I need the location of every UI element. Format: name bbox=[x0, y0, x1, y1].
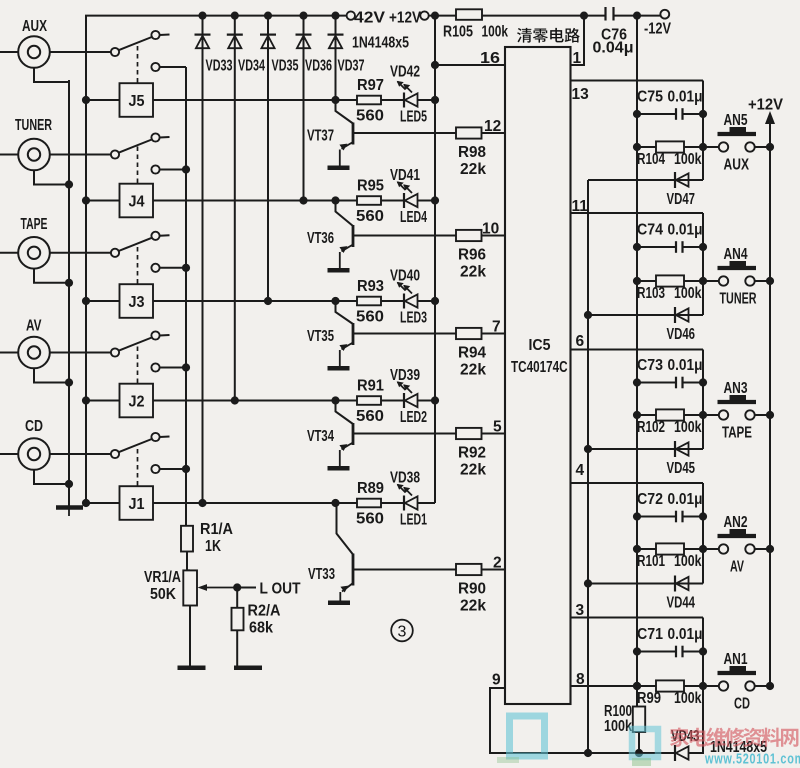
switch lower contact AV bbox=[151, 363, 159, 371]
junction VD3x column / stage 4 bbox=[299, 196, 307, 204]
button AN1 contact left bbox=[719, 681, 728, 690]
wire +12V button rail bbox=[769, 124, 771, 686]
svg-text:11: 11 bbox=[572, 198, 589, 215]
junction 42V rail / J2 bbox=[82, 396, 90, 404]
ground R2/A bbox=[234, 666, 262, 671]
wire C71 right bbox=[683, 651, 704, 653]
svg-text:TAPE: TAPE bbox=[722, 425, 752, 442]
junction collector node stage 3 bbox=[331, 297, 339, 305]
wire AUX jack left stub bbox=[0, 51, 18, 53]
button AN4 contact left bbox=[719, 276, 728, 285]
wire C73 right bbox=[683, 382, 704, 384]
diode VD34 bbox=[227, 35, 243, 49]
wire collector VT37 bbox=[336, 100, 354, 124]
svg-text:6: 6 bbox=[576, 333, 585, 350]
wire L OUT node to R2/A bbox=[236, 588, 238, 608]
svg-text:2: 2 bbox=[493, 555, 502, 572]
capacitor C73 bbox=[676, 377, 683, 389]
junction rail/R99 bbox=[633, 682, 641, 690]
terminal 42V bbox=[347, 11, 355, 19]
wire VD43 to R99 node bbox=[689, 686, 704, 753]
wire reset diode rail bbox=[587, 180, 589, 753]
svg-text:VT36: VT36 bbox=[307, 230, 334, 247]
wire IC pin 3 row bbox=[571, 617, 704, 619]
wire base VT36 to R96 bbox=[353, 235, 456, 237]
wire C75 right bbox=[683, 113, 704, 115]
resistor R100 bbox=[633, 707, 645, 733]
svg-text:VD44: VD44 bbox=[667, 595, 696, 612]
wire C71 left bbox=[637, 651, 676, 653]
junction +12V rail AN5 bbox=[766, 143, 774, 151]
svg-text:VT35: VT35 bbox=[307, 328, 334, 345]
resistor R90 bbox=[456, 564, 482, 575]
wire 42V rail to relay J2 bbox=[86, 400, 120, 402]
junction LED rail stage 2 bbox=[431, 396, 439, 404]
junction VD3x column / stage 2 bbox=[231, 396, 239, 404]
svg-text:C72: C72 bbox=[637, 491, 663, 508]
svg-text:R89: R89 bbox=[357, 480, 384, 497]
wire AN5 to +12V rail bbox=[754, 146, 770, 148]
junction right/C75 bbox=[699, 110, 707, 118]
switch lower contact TAPE bbox=[151, 264, 159, 272]
watermark green mark bbox=[497, 757, 651, 766]
wire 42V rail to relay J5 bbox=[86, 99, 120, 101]
watermark jiadian weixiu ziliao wang bbox=[670, 728, 799, 747]
svg-text:J5: J5 bbox=[129, 93, 145, 110]
wire channel 1 right rail bbox=[702, 618, 704, 687]
svg-text:AV: AV bbox=[26, 318, 42, 335]
junction 42V rail / J5 bbox=[82, 96, 90, 104]
dashed actuation link J2 bbox=[137, 347, 139, 384]
relay J2 bbox=[120, 384, 154, 418]
junction right/C74 bbox=[699, 243, 707, 251]
resistor R99 bbox=[656, 680, 684, 691]
wire C73 left bbox=[637, 382, 676, 384]
switch upper contact TUNER bbox=[151, 133, 159, 141]
wire IC pin 6 row bbox=[571, 349, 704, 351]
junction ground bus TUNER bbox=[65, 180, 73, 188]
junction right/C73 bbox=[699, 378, 707, 386]
svg-text:LED1: LED1 bbox=[400, 512, 427, 529]
svg-text:C71: C71 bbox=[637, 626, 663, 643]
svg-text:0.01μ: 0.01μ bbox=[668, 491, 703, 508]
resistor R93 bbox=[357, 297, 381, 306]
svg-text:J4: J4 bbox=[129, 193, 145, 210]
svg-text:13: 13 bbox=[572, 86, 590, 103]
wire AUX jack sleeve to ground bus bbox=[34, 68, 69, 82]
wire upper contact stub CD bbox=[160, 436, 170, 439]
svg-text:R103: R103 bbox=[637, 285, 665, 302]
svg-text:R105: R105 bbox=[443, 24, 473, 41]
wire VD37 column bbox=[335, 16, 337, 100]
junction +12V rail AN2 bbox=[766, 545, 774, 553]
terminal -12V bbox=[660, 10, 669, 19]
svg-text:R2/A: R2/A bbox=[248, 603, 281, 620]
wire base VT34 to R92 bbox=[353, 433, 456, 435]
switch common contact CD bbox=[111, 450, 119, 458]
ground VT36 bbox=[328, 268, 350, 273]
jack AUX connector bbox=[18, 36, 50, 68]
button AN5 contact left bbox=[719, 142, 728, 151]
wire channel 2 right rail bbox=[702, 483, 704, 584]
wire R90 to IC pin 2 bbox=[482, 569, 506, 571]
wire lower contact TAPE to audio bus bbox=[160, 267, 186, 269]
wire VD44 row bbox=[588, 583, 703, 585]
svg-text:TUNER: TUNER bbox=[15, 117, 52, 134]
wiper arrow VR1/A bbox=[198, 584, 238, 591]
wire 42V rail to relay J1 bbox=[86, 502, 120, 504]
wire R105 to C76 bbox=[482, 15, 606, 17]
wire C75 left bbox=[637, 113, 676, 115]
wire C74 left bbox=[637, 246, 676, 248]
jack AV connector bbox=[18, 337, 50, 369]
wire LED2 to LED rail bbox=[418, 400, 436, 402]
svg-text:R94: R94 bbox=[458, 345, 486, 362]
wire R96 to IC pin 10 bbox=[482, 235, 506, 237]
diode VD46 bbox=[675, 307, 689, 323]
svg-text:560: 560 bbox=[356, 408, 384, 425]
wire audio select bus bbox=[185, 67, 187, 526]
svg-text:VD36: VD36 bbox=[305, 58, 332, 75]
button AN5 contact right bbox=[745, 142, 754, 151]
wire top supply bus left segment with corner down left rail bbox=[86, 16, 347, 503]
svg-text:4: 4 bbox=[576, 462, 585, 479]
wire R102 right bbox=[684, 414, 719, 416]
wire R101 left bbox=[637, 548, 656, 550]
junction rail/C72 bbox=[633, 512, 641, 520]
junction rail/R102 bbox=[633, 411, 641, 419]
junction top bus / VD33 column bbox=[198, 12, 206, 20]
svg-text:22k: 22k bbox=[460, 598, 486, 615]
junction reset rail / VD46 bbox=[584, 311, 592, 319]
wire lower contact AV to audio bus bbox=[160, 367, 186, 369]
wire stage line J to R93 bbox=[153, 300, 357, 302]
svg-text:R1/A: R1/A bbox=[200, 521, 233, 538]
wire VD45 row bbox=[588, 448, 703, 450]
switch arm AUX bbox=[119, 37, 152, 50]
junction VD3x column / stage 5 bbox=[331, 96, 339, 104]
svg-text:TAPE: TAPE bbox=[21, 216, 48, 233]
svg-text:R99: R99 bbox=[637, 690, 661, 707]
svg-text:C73: C73 bbox=[637, 357, 663, 374]
wire C72 left bbox=[637, 516, 676, 518]
transistor VT35 emitter bbox=[340, 343, 353, 367]
resistor R91 bbox=[357, 396, 381, 405]
junction collector node stage 2 bbox=[331, 396, 339, 404]
junction rail/C75 bbox=[633, 110, 641, 118]
dashed actuation link J4 bbox=[137, 147, 139, 184]
junction audio bus / TUNER contact bbox=[182, 165, 190, 173]
resistor R98 bbox=[456, 127, 482, 138]
button AN4 actuator bbox=[718, 261, 757, 268]
switch arm CD bbox=[119, 439, 152, 452]
wire TUNER jack to switch common bbox=[50, 154, 111, 156]
switch common contact TUNER bbox=[111, 150, 119, 158]
potentiometer VR1/A bbox=[183, 570, 197, 605]
transistor VT37 emitter bbox=[340, 142, 353, 166]
wire R100 to bottom line bbox=[638, 732, 640, 753]
svg-text:VT37: VT37 bbox=[307, 128, 334, 145]
wire R102 left bbox=[637, 414, 656, 416]
svg-text:0.01μ: 0.01μ bbox=[668, 357, 703, 374]
svg-text:7: 7 bbox=[492, 319, 501, 336]
svg-text:3: 3 bbox=[576, 602, 585, 619]
wire LED3 to LED rail bbox=[418, 300, 436, 302]
wire C76 to -12V terminal bbox=[614, 15, 661, 17]
wire upper contact stub AUX bbox=[160, 34, 170, 37]
wire upper contact stub TAPE bbox=[160, 234, 170, 237]
wire lower contact AUX to audio bus bbox=[160, 66, 186, 68]
junction L OUT node bbox=[233, 583, 241, 591]
resistor R1/A bbox=[181, 526, 193, 552]
svg-text:CD: CD bbox=[734, 696, 750, 713]
wire R94 to IC pin 7 bbox=[482, 333, 506, 335]
junction top bus / VD36 column bbox=[299, 12, 307, 20]
junction VD3x column / stage 3 bbox=[264, 297, 272, 305]
wire 42V rail to relay J3 bbox=[86, 300, 120, 302]
button AN4 contact right bbox=[745, 276, 754, 285]
junction top bus / VD35 column bbox=[264, 12, 272, 20]
wire stage line J to R91 bbox=[153, 400, 357, 402]
junction top bus / VD37 column bbox=[331, 12, 339, 20]
diode VD43 bbox=[675, 745, 689, 761]
junction rail/C71 bbox=[633, 647, 641, 655]
svg-text:IC5: IC5 bbox=[529, 337, 551, 354]
junction right/R102 bbox=[699, 411, 707, 419]
wire C74 right bbox=[683, 246, 704, 248]
ground symbol jacks bbox=[56, 508, 83, 517]
junction +12V rail AN4 bbox=[766, 277, 774, 285]
svg-text:68k: 68k bbox=[249, 620, 273, 637]
svg-text:1K: 1K bbox=[205, 538, 221, 555]
svg-text:100k: 100k bbox=[674, 151, 702, 168]
wire AUX jack to switch common bbox=[50, 51, 111, 53]
svg-text:R101: R101 bbox=[637, 553, 665, 570]
wire VD35 column bbox=[267, 16, 269, 301]
wire VR1/A to ground bbox=[189, 606, 191, 667]
ground VT33 bbox=[328, 601, 350, 606]
wire -12V rail (left channel rail) bbox=[636, 16, 638, 707]
svg-text:C74: C74 bbox=[637, 222, 663, 239]
svg-text:16: 16 bbox=[480, 50, 500, 67]
svg-text:LED2: LED2 bbox=[400, 409, 427, 426]
junction rail/C73 bbox=[633, 378, 641, 386]
svg-text:R102: R102 bbox=[637, 419, 665, 436]
svg-text:AN1: AN1 bbox=[724, 651, 748, 668]
junction LED rail stage 4 bbox=[431, 196, 439, 204]
junction rail/R104 bbox=[633, 143, 641, 151]
button AN3 actuator bbox=[718, 395, 757, 402]
relay J5 bbox=[120, 83, 154, 117]
svg-text:0.01μ: 0.01μ bbox=[668, 89, 703, 106]
svg-text:VD37: VD37 bbox=[338, 58, 365, 75]
junction -12V rail / R99 row bbox=[633, 682, 641, 690]
transistor VT34 emitter bbox=[340, 443, 353, 467]
diode VD45 bbox=[675, 441, 689, 457]
svg-text:42V: 42V bbox=[354, 10, 385, 27]
resistor R102 bbox=[656, 409, 684, 420]
wire base VT33 to R90 bbox=[353, 569, 456, 571]
svg-text:VD38: VD38 bbox=[390, 470, 420, 487]
svg-text:R98: R98 bbox=[458, 144, 486, 161]
resistor R95 bbox=[357, 196, 381, 205]
junction -12V rail top bbox=[633, 12, 641, 20]
node marker circled 3 bbox=[391, 620, 413, 642]
wire TUNER jack left stub bbox=[0, 154, 18, 156]
wire lower contact TUNER to audio bus bbox=[160, 169, 186, 171]
svg-text:R93: R93 bbox=[357, 278, 384, 295]
svg-text:AN5: AN5 bbox=[724, 112, 748, 129]
svg-text:VD34: VD34 bbox=[238, 58, 265, 75]
wire L OUT stub bbox=[237, 587, 256, 589]
wire R93 to LED3 bbox=[381, 300, 404, 302]
svg-text:VD45: VD45 bbox=[667, 460, 696, 477]
svg-text:R104: R104 bbox=[637, 151, 665, 168]
wire R101 right bbox=[684, 548, 719, 550]
junction collector node stage 1 bbox=[331, 499, 339, 507]
wire VD36 column bbox=[303, 16, 305, 201]
wire IC pin 8 to R99 row bbox=[571, 685, 638, 687]
wire R89 to LED1 bbox=[381, 502, 404, 504]
junction node top rail / LED rail bbox=[431, 12, 439, 20]
svg-text:0.01μ: 0.01μ bbox=[668, 222, 703, 239]
svg-text:3: 3 bbox=[398, 624, 407, 641]
button AN1 contact right bbox=[745, 681, 754, 690]
wire pin 9 to bottom line bbox=[490, 688, 588, 753]
junction +12V rail AN1 bbox=[766, 682, 774, 690]
svg-text:www.520101.com: www.520101.com bbox=[704, 751, 800, 768]
svg-text:AV: AV bbox=[730, 559, 744, 576]
svg-text:TUNER: TUNER bbox=[720, 291, 757, 308]
wire CD jack left stub bbox=[0, 453, 18, 455]
button AN3 contact left bbox=[719, 410, 728, 419]
svg-text:VT33: VT33 bbox=[308, 566, 335, 583]
wire R103 right bbox=[684, 280, 719, 282]
wire AN1 to +12V rail bbox=[754, 685, 770, 687]
ground VT34 bbox=[328, 466, 350, 471]
wire AN4 to +12V rail bbox=[754, 280, 770, 282]
junction ground bus AV bbox=[65, 378, 73, 386]
wire R98 to IC pin 12 bbox=[482, 132, 506, 134]
wire TAPE jack to switch common bbox=[50, 252, 111, 254]
wire +12V terminal to R105 bbox=[429, 15, 456, 17]
svg-text:22k: 22k bbox=[460, 362, 486, 379]
wire R95 to LED4 bbox=[381, 200, 404, 202]
svg-text:10: 10 bbox=[482, 221, 499, 238]
svg-text:1: 1 bbox=[573, 50, 582, 67]
wire IC pin 13 row bbox=[571, 80, 704, 82]
switch arm TUNER bbox=[119, 140, 152, 153]
svg-text:100k: 100k bbox=[674, 690, 702, 707]
diode VD47 bbox=[675, 172, 689, 188]
junction collector node stage 4 bbox=[331, 196, 339, 204]
button AN5 actuator bbox=[718, 127, 757, 134]
label qingling-dianlu (clear circuit) bbox=[517, 28, 580, 43]
resistor R92 bbox=[456, 428, 482, 439]
wire channel 4 right rail bbox=[702, 213, 704, 315]
switch lower contact AUX bbox=[151, 63, 159, 71]
resistor R97 bbox=[357, 96, 381, 105]
svg-text:100k: 100k bbox=[674, 553, 702, 570]
wire collector VT36 bbox=[336, 201, 354, 227]
svg-text:VD47: VD47 bbox=[667, 191, 696, 208]
switch upper contact AV bbox=[151, 331, 159, 339]
svg-text:VD39: VD39 bbox=[390, 367, 420, 384]
jack CD connector bbox=[18, 438, 50, 470]
ground VR1/A bbox=[178, 666, 206, 671]
svg-text:VD41: VD41 bbox=[390, 167, 420, 184]
svg-text:8: 8 bbox=[576, 671, 585, 688]
wire AN2 to +12V rail bbox=[754, 548, 770, 550]
LED LED5 (VD42) bbox=[398, 82, 418, 108]
wire channel 3 right rail bbox=[702, 350, 704, 450]
wire R104 right bbox=[684, 146, 719, 148]
watermark logo square 1 bbox=[510, 716, 545, 756]
junction LED rail / pin16 line bbox=[431, 61, 439, 69]
wire lower contact CD to audio bus bbox=[160, 468, 186, 470]
junction right/C72 bbox=[699, 512, 707, 520]
switch upper contact AUX bbox=[151, 31, 159, 39]
svg-text:560: 560 bbox=[356, 511, 384, 528]
svg-text:AN4: AN4 bbox=[724, 246, 748, 263]
wire AN3 to +12V rail bbox=[754, 414, 770, 416]
junction reset rail / VD44 bbox=[584, 579, 592, 587]
junction 42V rail / J4 bbox=[82, 196, 90, 204]
button AN3 contact right bbox=[745, 410, 754, 419]
svg-text:VD42: VD42 bbox=[390, 64, 420, 81]
junction right/R104 bbox=[699, 143, 707, 151]
junction rail/R103 bbox=[633, 277, 641, 285]
junction right/R101 bbox=[699, 545, 707, 553]
junction reset rail / VD45 bbox=[584, 445, 592, 453]
svg-text:100k: 100k bbox=[674, 419, 702, 436]
junction reset rail / bottom line bbox=[584, 749, 592, 757]
svg-text:R96: R96 bbox=[458, 247, 486, 264]
switch common contact AUX bbox=[111, 48, 119, 56]
junction ground bus CD bbox=[65, 480, 73, 488]
wire stage line J to R89 bbox=[153, 502, 357, 504]
svg-text:100k: 100k bbox=[604, 718, 632, 735]
svg-text:VD46: VD46 bbox=[667, 326, 696, 343]
LED LED1 (VD38) bbox=[398, 485, 418, 511]
svg-text:J1: J1 bbox=[129, 496, 145, 513]
svg-text:22k: 22k bbox=[460, 264, 486, 281]
ground VT35 bbox=[328, 366, 350, 371]
relay J4 bbox=[120, 184, 154, 218]
junction ground bus TAPE bbox=[65, 279, 73, 287]
svg-text:L OUT: L OUT bbox=[260, 581, 301, 598]
wire C72 right bbox=[683, 516, 704, 518]
svg-text:R92: R92 bbox=[458, 445, 486, 462]
capacitor C72 bbox=[676, 511, 683, 523]
svg-text:100k: 100k bbox=[482, 24, 509, 41]
wire AV jack to switch common bbox=[50, 352, 111, 354]
wire upper contact stub AV bbox=[160, 334, 170, 337]
switch arm TAPE bbox=[119, 238, 152, 251]
svg-text:CD: CD bbox=[25, 418, 43, 435]
junction VD3x column / stage 1 bbox=[198, 499, 206, 507]
junction 42V rail / J3 bbox=[82, 297, 90, 305]
junction rail/C74 bbox=[633, 243, 641, 251]
svg-text:AN3: AN3 bbox=[724, 380, 748, 397]
junction audio bus / AV contact bbox=[182, 363, 190, 371]
svg-text:AN2: AN2 bbox=[724, 514, 748, 531]
wire CD jack to switch common bbox=[50, 453, 111, 455]
wire VD34 column bbox=[234, 16, 236, 401]
svg-text:VT34: VT34 bbox=[307, 428, 334, 445]
junction 42V rail / J1 bbox=[82, 499, 90, 507]
svg-text:R91: R91 bbox=[357, 378, 384, 395]
